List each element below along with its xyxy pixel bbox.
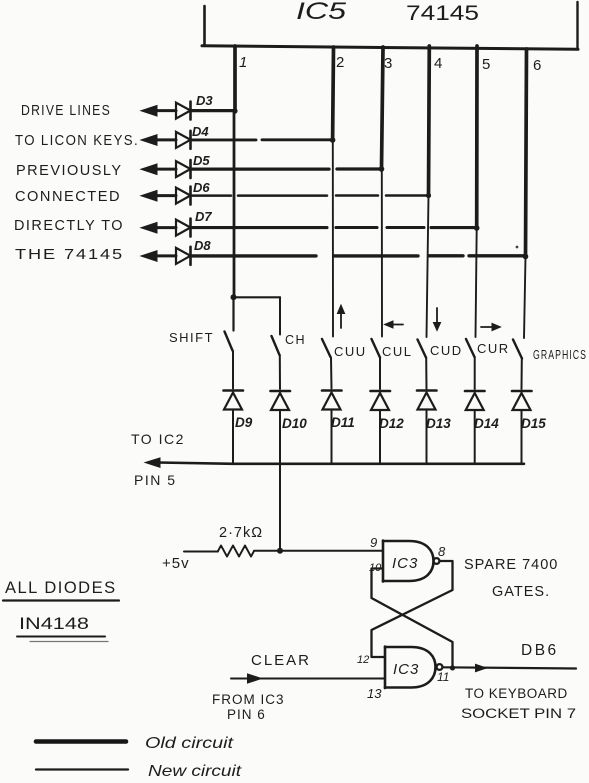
svg-text:DIRECTLY TO: DIRECTLY TO xyxy=(14,218,124,234)
svg-text:CLEAR: CLEAR xyxy=(251,652,311,669)
svg-text:D8: D8 xyxy=(194,238,211,253)
svg-text:11: 11 xyxy=(437,670,449,684)
svg-text:DB6: DB6 xyxy=(521,642,559,659)
svg-text:PREVIOUSLY: PREVIOUSLY xyxy=(16,163,123,179)
svg-text:SHIFT: SHIFT xyxy=(169,330,214,345)
svg-text:1: 1 xyxy=(239,54,247,71)
svg-text:D6: D6 xyxy=(193,180,210,195)
svg-text:IC3: IC3 xyxy=(392,555,418,572)
svg-text:D11: D11 xyxy=(331,415,355,430)
svg-text:GRAPHICS: GRAPHICS xyxy=(533,348,587,362)
svg-text:D14: D14 xyxy=(474,416,499,431)
svg-text:4: 4 xyxy=(434,55,442,72)
svg-text:CUD: CUD xyxy=(430,343,463,358)
svg-text:SPARE 7400: SPARE 7400 xyxy=(464,557,558,573)
svg-text:2·7kΩ: 2·7kΩ xyxy=(219,525,263,541)
svg-text:D3: D3 xyxy=(196,93,213,108)
svg-text:12: 12 xyxy=(357,654,369,666)
svg-text:TO IC2: TO IC2 xyxy=(131,431,185,447)
svg-text:IC3: IC3 xyxy=(393,661,419,678)
svg-text:THE 74145: THE 74145 xyxy=(15,247,124,263)
svg-text:DRIVE LINES: DRIVE LINES xyxy=(21,103,111,119)
svg-text:TO LICON KEYS.: TO LICON KEYS. xyxy=(15,133,139,149)
svg-text:D15: D15 xyxy=(521,416,546,431)
svg-text:New circuit: New circuit xyxy=(148,763,242,780)
svg-text:D9: D9 xyxy=(235,415,253,430)
svg-text:D10: D10 xyxy=(282,416,307,431)
svg-text:CONNECTED: CONNECTED xyxy=(15,189,121,205)
svg-text:PIN 5: PIN 5 xyxy=(134,472,177,488)
svg-text:6: 6 xyxy=(533,57,541,74)
svg-text:8: 8 xyxy=(438,544,446,559)
svg-text:Old circuit: Old circuit xyxy=(145,735,234,752)
svg-text:+5v: +5v xyxy=(162,555,190,572)
svg-text:9: 9 xyxy=(370,535,377,550)
svg-text:TO KEYBOARD: TO KEYBOARD xyxy=(465,686,568,701)
svg-text:PIN 6: PIN 6 xyxy=(227,707,266,722)
svg-text:CUL: CUL xyxy=(382,344,413,359)
svg-text:13: 13 xyxy=(367,686,382,701)
svg-text:74145: 74145 xyxy=(406,2,479,25)
svg-text:CUU: CUU xyxy=(334,344,367,359)
svg-text:5: 5 xyxy=(482,56,490,73)
svg-text:IN4148: IN4148 xyxy=(19,615,89,633)
svg-text:IC5: IC5 xyxy=(296,0,347,25)
svg-text:D5: D5 xyxy=(193,153,210,168)
svg-text:3: 3 xyxy=(384,55,392,72)
svg-text:GATES.: GATES. xyxy=(492,584,550,600)
svg-text:FROM IC3: FROM IC3 xyxy=(212,692,285,707)
svg-text:SOCKET PIN 7: SOCKET PIN 7 xyxy=(461,706,576,721)
svg-text:D4: D4 xyxy=(192,124,209,139)
svg-text:ALL DIODES: ALL DIODES xyxy=(5,579,117,597)
svg-text:CH: CH xyxy=(285,332,306,347)
svg-text:D7: D7 xyxy=(195,209,212,224)
svg-text:D13: D13 xyxy=(426,416,451,431)
svg-text:10: 10 xyxy=(369,562,382,574)
svg-text:CUR: CUR xyxy=(477,341,510,356)
svg-text:2: 2 xyxy=(336,54,344,71)
svg-text:D12: D12 xyxy=(379,416,404,431)
